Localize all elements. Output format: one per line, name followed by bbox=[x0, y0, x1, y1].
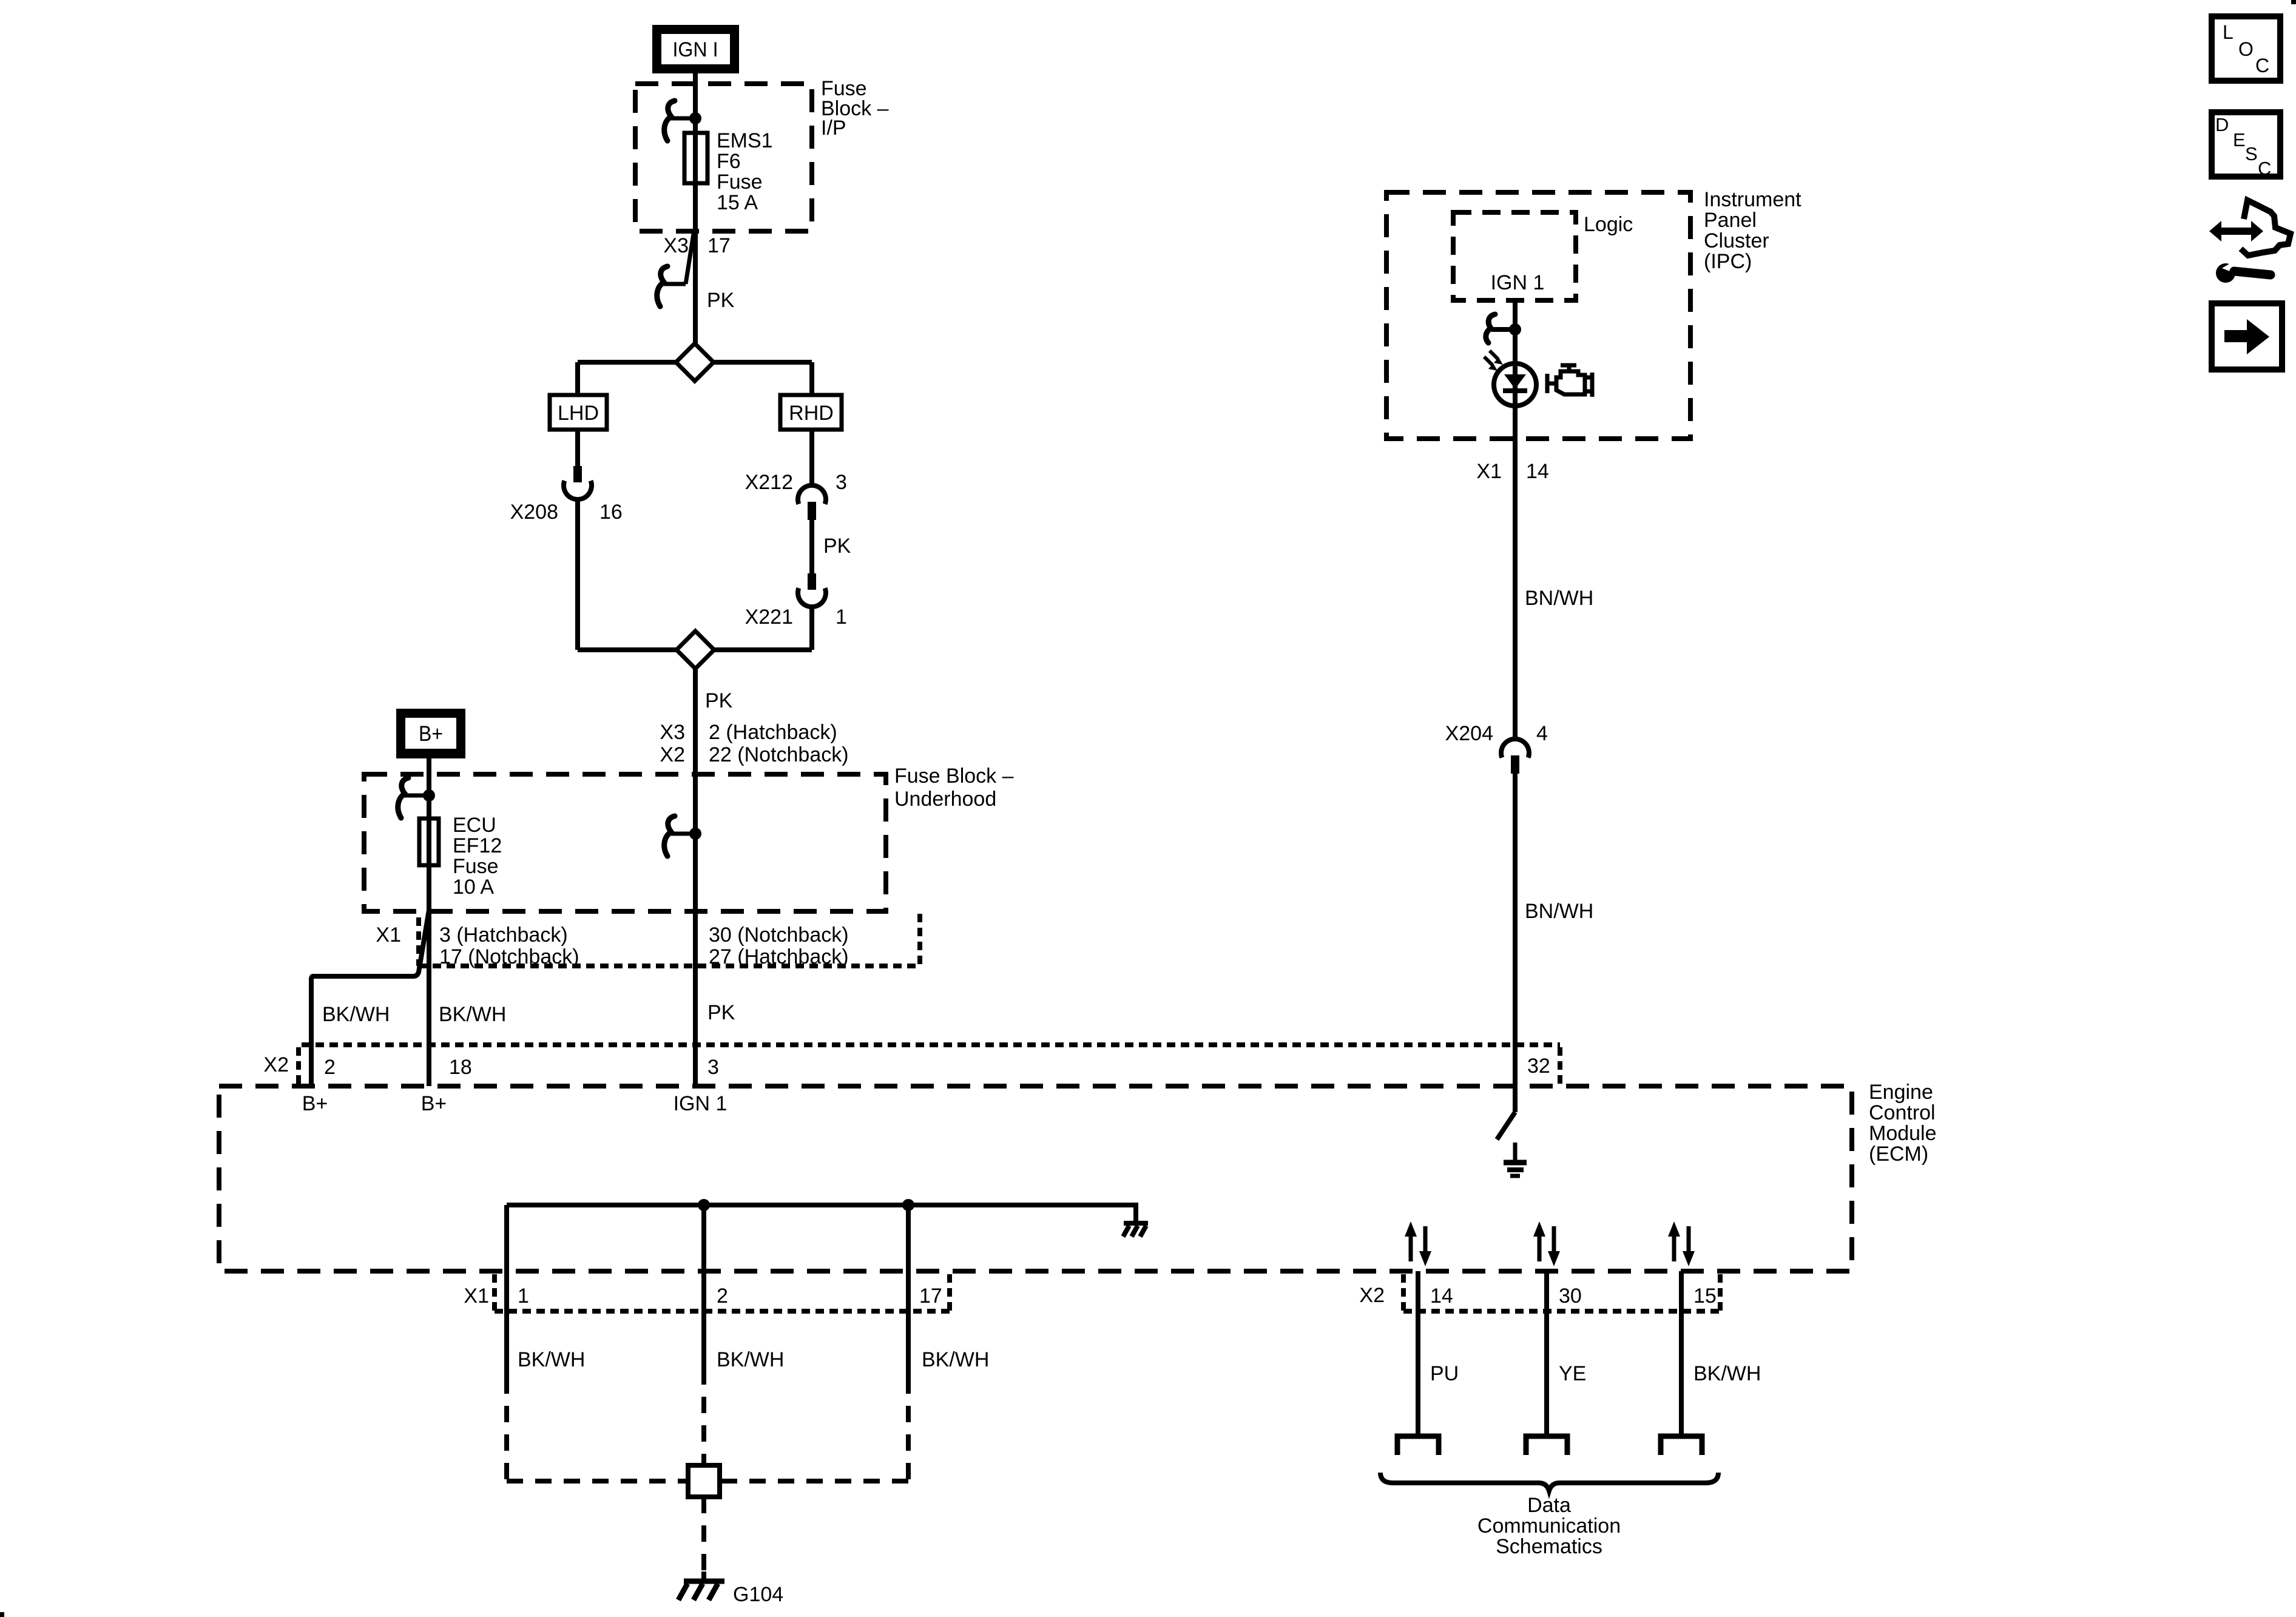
svg-text:27 (Hatchback): 27 (Hatchback) bbox=[709, 945, 849, 968]
svg-text:C: C bbox=[2258, 158, 2271, 179]
connector labels X3/X2 hatchback/notchback bbox=[660, 721, 848, 766]
svg-text:2: 2 bbox=[717, 1284, 728, 1308]
data pin arrows pin30 bbox=[1533, 1221, 1560, 1266]
svg-text:X1: X1 bbox=[376, 923, 401, 947]
connector X2 row of ECM (bottom right) bbox=[1403, 1274, 1720, 1311]
svg-text:EMS1: EMS1 bbox=[717, 129, 773, 152]
svg-text:RHD: RHD bbox=[789, 402, 834, 425]
wire ECM pin 2 bbox=[701, 1205, 706, 1368]
wire LHD to X208 bbox=[575, 430, 580, 467]
power feed box B+ bbox=[396, 709, 465, 758]
wire ECM pin 14 bbox=[1416, 1271, 1420, 1434]
wire PK between X212 and X221 bbox=[809, 520, 814, 573]
power feed box IGN I bbox=[652, 25, 739, 73]
svg-text:X1: X1 bbox=[464, 1284, 489, 1308]
svg-text:IGN I: IGN I bbox=[673, 38, 718, 61]
label Fuse Block - Underhood bbox=[894, 765, 1014, 811]
svg-text:Fuse Block –: Fuse Block – bbox=[894, 765, 1014, 788]
svg-text:C: C bbox=[2255, 55, 2269, 76]
svg-text:3: 3 bbox=[836, 471, 847, 494]
svg-text:I/P: I/P bbox=[821, 116, 846, 140]
ground G104 bbox=[678, 1571, 724, 1600]
wire pin 17 dashed to ground splice bbox=[906, 1377, 911, 1481]
svg-text:X2: X2 bbox=[263, 1053, 289, 1076]
svg-text:2: 2 bbox=[324, 1056, 336, 1079]
labels X1 pins 1 2 17 bbox=[518, 1284, 942, 1308]
label X204 4 bbox=[1445, 722, 1548, 745]
label X208 16 bbox=[510, 501, 623, 524]
option box LHD bbox=[550, 395, 607, 430]
wire pin 1 dashed to ground splice bbox=[504, 1377, 509, 1481]
svg-text:Panel: Panel bbox=[1704, 209, 1757, 232]
svg-text:30 (Notchback): 30 (Notchback) bbox=[709, 923, 849, 947]
svg-text:16: 16 bbox=[599, 501, 623, 524]
svg-text:PK: PK bbox=[707, 289, 735, 312]
svg-text:32: 32 bbox=[1527, 1055, 1550, 1078]
data pin arrows pin15 bbox=[1668, 1221, 1695, 1266]
svg-text:17: 17 bbox=[919, 1284, 942, 1308]
wire IGN1 to LED bbox=[1513, 300, 1518, 365]
svg-text:10 A: 10 A bbox=[453, 876, 494, 899]
svg-text:S: S bbox=[2245, 143, 2258, 164]
label Instrument Panel Cluster (IPC) bbox=[1704, 188, 1801, 273]
svg-text:Fuse: Fuse bbox=[453, 855, 499, 878]
junction dot pin2 bus bbox=[698, 1199, 710, 1211]
wire ECM pin 1 bbox=[504, 1205, 509, 1377]
svg-text:D: D bbox=[2215, 114, 2229, 135]
svg-text:EF12: EF12 bbox=[453, 834, 502, 857]
svg-text:X2: X2 bbox=[1359, 1284, 1385, 1307]
wire splice to ECM pin 3 bbox=[693, 669, 698, 1086]
svg-text:B+: B+ bbox=[302, 1092, 328, 1115]
svg-text:PU: PU bbox=[1430, 1362, 1459, 1385]
wire pin 2 dashed to ground splice bbox=[701, 1368, 706, 1465]
wire fuse ECU to ECM pin 18 bbox=[427, 867, 431, 1086]
label ECU EF12 Fuse 10A bbox=[453, 814, 502, 899]
clip terminal at IGN feed in underhood block bbox=[664, 816, 701, 856]
wire splice bus lower bbox=[578, 647, 812, 652]
svg-text:30: 30 bbox=[1559, 1284, 1582, 1308]
wire dashed splice to G104 bbox=[701, 1497, 706, 1578]
svg-text:14: 14 bbox=[1526, 460, 1549, 483]
svg-text:14: 14 bbox=[1430, 1284, 1453, 1308]
ECM dashed box bbox=[219, 1086, 1852, 1271]
labels X1 pins bbox=[439, 923, 849, 968]
svg-text:BK/WH: BK/WH bbox=[322, 1003, 390, 1026]
label X1 14 bbox=[1476, 460, 1548, 483]
ground splice square bbox=[688, 1465, 720, 1497]
svg-text:BK/WH: BK/WH bbox=[922, 1348, 989, 1371]
svg-text:IGN 1: IGN 1 bbox=[674, 1092, 728, 1115]
wire splice bus upper bbox=[578, 360, 812, 365]
connector X221 pin 1 (male pin + female cup) bbox=[798, 573, 826, 607]
svg-text:1: 1 bbox=[518, 1284, 529, 1308]
ECM internal ground symbol bbox=[1504, 1143, 1527, 1176]
svg-text:YE: YE bbox=[1559, 1362, 1586, 1385]
svg-text:BN/WH: BN/WH bbox=[1525, 900, 1593, 923]
label Data Communication Schematics bbox=[1477, 1494, 1621, 1558]
clip terminal at fuse block I/P bbox=[664, 101, 701, 141]
wire RHD to X212 bbox=[809, 430, 814, 486]
svg-text:2 (Hatchback): 2 (Hatchback) bbox=[709, 721, 837, 744]
svg-text:Underhood: Underhood bbox=[894, 788, 996, 811]
ECM internal ground bus bbox=[507, 1205, 1136, 1222]
svg-text:PK: PK bbox=[707, 1001, 735, 1024]
svg-text:15 A: 15 A bbox=[717, 191, 758, 214]
connector X3 terminal tap bbox=[657, 230, 694, 306]
svg-text:Control: Control bbox=[1869, 1101, 1936, 1124]
brace data communication bbox=[1380, 1473, 1718, 1491]
svg-text:ECU: ECU bbox=[453, 814, 496, 837]
forward arrow box bbox=[2212, 303, 2282, 370]
svg-text:B+: B+ bbox=[419, 722, 443, 746]
wire ECM pin 17 bbox=[906, 1205, 911, 1377]
fuse EMS1 F6 15A bbox=[684, 133, 707, 183]
label X221 1 bbox=[745, 606, 847, 629]
junction dot pin17 bus bbox=[902, 1199, 914, 1211]
diagnostic icon double arrow bbox=[2209, 221, 2263, 241]
svg-text:BK/WH: BK/WH bbox=[439, 1003, 506, 1026]
option box RHD bbox=[780, 395, 842, 430]
svg-text:X221: X221 bbox=[745, 606, 793, 629]
svg-text:IGN 1: IGN 1 bbox=[1491, 271, 1545, 294]
check engine icon bbox=[1547, 365, 1592, 397]
svg-text:15: 15 bbox=[1693, 1284, 1717, 1308]
svg-text:(ECM): (ECM) bbox=[1869, 1143, 1928, 1166]
labels internal pin names B+ B+ IGN 1 bbox=[302, 1092, 728, 1115]
svg-text:BK/WH: BK/WH bbox=[518, 1348, 585, 1371]
fuse block I/P dashed box bbox=[635, 84, 812, 231]
svg-text:3 (Hatchback): 3 (Hatchback) bbox=[439, 923, 568, 947]
svg-text:4: 4 bbox=[1536, 722, 1548, 745]
svg-text:X3: X3 bbox=[660, 721, 685, 744]
label Engine Control Module (ECM) bbox=[1869, 1081, 1937, 1166]
labels X2 pins 14 30 15 bbox=[1430, 1284, 1717, 1308]
svg-text:X212: X212 bbox=[745, 471, 793, 494]
wire B+ to fuse ECU bbox=[427, 758, 431, 867]
svg-text:18: 18 bbox=[449, 1056, 472, 1079]
wire ECM pin 15 bbox=[1679, 1271, 1684, 1434]
LOC box bbox=[2212, 16, 2280, 81]
diagnostic icon connector outline bbox=[2241, 200, 2291, 255]
splice diamond lower bbox=[677, 631, 714, 669]
svg-text:X208: X208 bbox=[510, 501, 558, 524]
svg-text:Logic: Logic bbox=[1584, 213, 1633, 236]
svg-text:Engine: Engine bbox=[1869, 1081, 1933, 1104]
wire labels BK/WH x3 bbox=[518, 1348, 989, 1371]
logic dashed box bbox=[1453, 212, 1576, 300]
svg-text:Schematics: Schematics bbox=[1496, 1535, 1602, 1558]
svg-text:Instrument: Instrument bbox=[1704, 188, 1801, 211]
connector X1 row of ECM (bottom left) bbox=[495, 1274, 950, 1311]
clip terminal at B+ feed bbox=[398, 778, 435, 818]
svg-text:Module: Module bbox=[1869, 1122, 1937, 1145]
label X212 3 bbox=[745, 471, 847, 494]
svg-text:LHD: LHD bbox=[558, 402, 599, 425]
svg-text:Cluster: Cluster bbox=[1704, 229, 1769, 252]
indicator LED (MIL) bbox=[1494, 363, 1536, 406]
label Fuse Block - I/P bbox=[821, 77, 889, 140]
svg-text:X2: X2 bbox=[660, 743, 685, 766]
wire branch to ECM pin 2 bbox=[311, 910, 429, 1086]
connector X2 row of ECM (top) bbox=[299, 1045, 1560, 1084]
DESC box bbox=[2212, 112, 2280, 179]
svg-text:X3: X3 bbox=[663, 234, 689, 257]
splice diamond upper bbox=[676, 343, 714, 381]
svg-text:Fuse: Fuse bbox=[717, 170, 763, 194]
svg-text:17: 17 bbox=[707, 234, 731, 257]
connector X212 pin 3 (female dome + male pin) bbox=[798, 485, 826, 520]
wire X221 down to splice bbox=[809, 607, 814, 650]
ECM internal half ground symbol bbox=[1123, 1223, 1148, 1237]
svg-text:3: 3 bbox=[707, 1056, 719, 1079]
svg-text:PK: PK bbox=[705, 689, 733, 712]
terminal pin 15 bbox=[1661, 1436, 1702, 1455]
svg-text:(IPC): (IPC) bbox=[1704, 250, 1752, 273]
IPC dashed box bbox=[1386, 192, 1690, 439]
connector X208 pin 16 (male pin + female cup) bbox=[564, 466, 592, 499]
clip terminal in IPC bbox=[1486, 314, 1521, 343]
svg-text:L: L bbox=[2223, 21, 2234, 43]
svg-text:E: E bbox=[2233, 129, 2246, 150]
connector X1 row of underhood fuse block bbox=[419, 914, 920, 966]
label EMS1 F6 Fuse 15A bbox=[717, 129, 773, 214]
svg-text:BN/WH: BN/WH bbox=[1525, 587, 1593, 610]
connector X3 pin 17 labels bbox=[663, 234, 730, 257]
diagnostic icon wrench bbox=[2216, 260, 2271, 283]
data pin arrows pin14 bbox=[1405, 1221, 1431, 1266]
svg-text:F6: F6 bbox=[717, 150, 741, 173]
svg-text:BK/WH: BK/WH bbox=[1693, 1362, 1761, 1385]
page corner tick bbox=[2291, 0, 2296, 4]
svg-text:X1: X1 bbox=[1476, 460, 1502, 483]
svg-text:Communication: Communication bbox=[1477, 1514, 1621, 1538]
fuse ECU EF12 10A bbox=[419, 819, 439, 865]
LED light arrows bbox=[1484, 351, 1503, 371]
svg-text:PK: PK bbox=[823, 535, 851, 558]
svg-text:Data: Data bbox=[1527, 1494, 1571, 1517]
wire X204 to ECM pin 32 bbox=[1513, 774, 1518, 1086]
svg-text:BK/WH: BK/WH bbox=[717, 1348, 784, 1371]
wire IGN I to fuse EMS1 bbox=[693, 72, 698, 343]
wire to RHD bbox=[809, 362, 814, 395]
fuse block underhood dashed box bbox=[364, 774, 886, 911]
svg-text:G104: G104 bbox=[733, 1583, 783, 1606]
ECM internal pin32 switch to ground bbox=[1497, 1086, 1515, 1139]
terminal pin 30 bbox=[1526, 1436, 1567, 1455]
labels X2 pins 2 18 3 32 bbox=[324, 1055, 1550, 1079]
svg-text:O: O bbox=[2238, 38, 2254, 60]
wire ECM pin 30 bbox=[1544, 1271, 1549, 1434]
svg-text:X204: X204 bbox=[1445, 722, 1493, 745]
stray dot bottom left bbox=[0, 1612, 4, 1617]
connector X204 pin 4 (female dome + male pin) bbox=[1501, 739, 1529, 774]
wire LED to IPC bottom bbox=[1513, 406, 1518, 741]
svg-text:1: 1 bbox=[836, 606, 847, 629]
terminal pin 14 bbox=[1397, 1436, 1439, 1455]
svg-text:B+: B+ bbox=[421, 1092, 447, 1115]
wire to LHD bbox=[575, 362, 580, 395]
svg-text:22 (Notchback): 22 (Notchback) bbox=[709, 743, 849, 766]
svg-text:17 (Notchback): 17 (Notchback) bbox=[439, 945, 579, 968]
wire X208 down to splice bbox=[575, 499, 580, 650]
